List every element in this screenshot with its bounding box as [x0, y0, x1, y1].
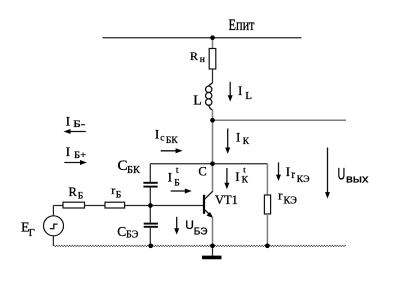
svg-text:R: R — [69, 185, 78, 199]
svg-text:L: L — [193, 94, 202, 109]
svg-text:С: С — [117, 224, 126, 239]
svg-text:К: К — [243, 137, 250, 147]
svg-text:Б: Б — [174, 179, 179, 189]
svg-text:вых: вых — [346, 173, 369, 185]
svg-text:I: I — [168, 170, 172, 185]
svg-text:U: U — [185, 218, 194, 232]
svg-text:L: L — [245, 90, 252, 102]
svg-text:VT1: VT1 — [215, 193, 238, 207]
svg-text:БК: БК — [127, 165, 141, 176]
svg-text:КЭ: КЭ — [297, 175, 310, 185]
svg-text:U: U — [338, 165, 346, 184]
svg-text:Б: Б — [78, 192, 83, 202]
svg-text:Г: Г — [29, 228, 35, 239]
svg-text:Епит: Епит — [229, 17, 255, 34]
svg-text:I: I — [236, 129, 240, 144]
svg-text:r: r — [278, 188, 283, 203]
svg-text:c: c — [160, 134, 164, 144]
svg-text:н: н — [200, 55, 205, 65]
svg-text:БЭ: БЭ — [126, 230, 139, 241]
svg-text:R: R — [190, 49, 198, 63]
svg-text:Б+: Б+ — [74, 151, 86, 161]
svg-text:I: I — [238, 83, 242, 98]
svg-text:I: I — [155, 126, 159, 141]
svg-text:К: К — [242, 175, 249, 185]
svg-text:I: I — [235, 169, 239, 184]
svg-text:Б: Б — [116, 191, 121, 201]
svg-text:С: С — [198, 164, 206, 178]
svg-text:t: t — [176, 166, 179, 176]
svg-text:I: I — [66, 113, 70, 128]
svg-text:r: r — [291, 169, 295, 181]
svg-text:С: С — [118, 158, 128, 174]
svg-text:БЭ: БЭ — [194, 227, 208, 238]
svg-text:Б-: Б- — [73, 120, 85, 130]
svg-text:r: r — [111, 183, 115, 197]
svg-text:I: I — [286, 164, 290, 179]
svg-text:КЭ: КЭ — [284, 195, 298, 206]
svg-text:I: I — [66, 144, 70, 159]
svg-text:БК: БК — [166, 136, 178, 146]
